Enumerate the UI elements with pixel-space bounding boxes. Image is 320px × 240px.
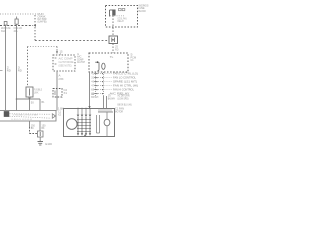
svg-text:FAN LO CONTROL: FAN LO CONTROL (113, 77, 137, 80)
svg-text:A2 DK GRN: A2 DK GRN (118, 95, 130, 98)
svg-text:SPARE (LS1 M/T): SPARE (LS1 M/T) (113, 81, 137, 84)
svg-text:1 BK: 1 BK (58, 109, 65, 111)
svg-text:BLOCK: BLOCK (139, 10, 147, 13)
svg-text:G100: G100 (45, 143, 53, 146)
svg-text:(UHFB): (UHFB) (38, 21, 47, 24)
svg-text:1 RD/BK 2 RD 3 BK: 1 RD/BK 2 RD 3 BK (13, 115, 39, 117)
svg-text:40A: 40A (14, 30, 18, 33)
svg-text:(LOW SPD): (LOW SPD) (118, 99, 129, 101)
svg-text:B8 DK BLU (HI): B8 DK BLU (HI) (118, 105, 132, 107)
svg-text:30A: 30A (1, 30, 5, 33)
svg-text:2 BK: 2 BK (59, 78, 64, 81)
svg-text:BK: BK (31, 128, 34, 130)
svg-text:RD: RD (115, 50, 119, 52)
svg-text:COOL FAN: COOL FAN (14, 27, 23, 30)
svg-text:RELAY: RELAY (118, 20, 125, 23)
svg-text:LINK: LINK (34, 92, 39, 94)
svg-text:(SEE NOTE): (SEE NOTE) (59, 65, 72, 68)
svg-text:FUSIBLE: FUSIBLE (34, 90, 42, 92)
svg-text:BK/WH: BK/WH (108, 99, 115, 101)
svg-text:MOTOR: MOTOR (115, 112, 123, 114)
svg-text:FAN HI CTRL (HI): FAN HI CTRL (HI) (113, 85, 138, 88)
svg-text:C1 FAN: C1 FAN (115, 108, 124, 111)
svg-text:RD: RD (18, 70, 22, 73)
svg-text:0.8 0.5 0.5 0.8: 0.8 0.5 0.5 0.8 (11, 119, 33, 121)
svg-text:BK/WH: BK/WH (91, 97, 98, 99)
svg-text:FAN HI CONTROL: FAN HI CONTROL (113, 89, 135, 92)
svg-text:BK: BK (42, 128, 45, 130)
svg-text:FAN LO CTRL (LO): FAN LO CTRL (LO) (113, 73, 138, 76)
svg-text:CLUTCH: CLUTCH (77, 61, 85, 64)
svg-text:RD: RD (7, 70, 11, 73)
